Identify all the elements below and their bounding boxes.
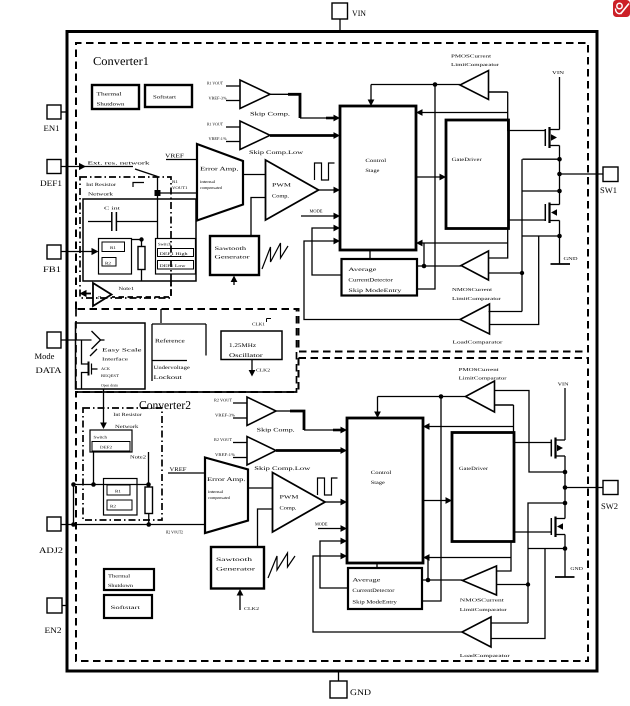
svg-text:Comp.: Comp.: [272, 194, 289, 200]
wire skip comp1 output to control stage: [270, 94, 340, 121]
svg-text:CLK2: CLK2: [256, 368, 270, 373]
wire NMOS comp1 output to average detector: [417, 265, 462, 267]
svg-text:Sawtooth: Sawtooth: [215, 246, 247, 252]
load comparator (conv2): [460, 617, 511, 658]
wire error amp2 out to pwm: [248, 487, 273, 489]
wire skip comp2 output to control stage: [276, 411, 347, 433]
sawtooth waveform symbol (conv2): [268, 553, 295, 578]
wire NMOS1 source to GND: [559, 221, 561, 264]
svg-text:Interface: Interface: [102, 357, 128, 362]
svg-text:Network: Network: [88, 192, 114, 198]
svg-text:R2: R2: [105, 261, 111, 266]
error amplifier (conv2): [205, 458, 248, 534]
wire junction down to average detector (conv1): [417, 85, 435, 290]
note1 feedback dashed path: [80, 281, 172, 297]
buffer triangle Note1: [93, 283, 135, 306]
svg-text:Thermal: Thermal: [108, 574, 131, 580]
junction sense line (conv2): [526, 582, 530, 586]
svg-text:DEF1: DEF1: [40, 178, 62, 188]
svg-text:LimitComparator: LimitComparator: [460, 607, 508, 612]
wire easyscale link up (conv1): [160, 309, 162, 323]
junction PMOS comp2 output: [439, 394, 444, 399]
svg-text:internal: internal: [208, 489, 224, 494]
svg-text:LoadComparator: LoadComparator: [453, 340, 504, 345]
svg-text:Converter2: Converter2: [139, 398, 191, 412]
wire load comp2 output to control2 left edge: [313, 553, 462, 632]
junction SW1: [557, 172, 562, 177]
node CLK2 with arrow: [249, 360, 270, 377]
svg-text:Shutdown: Shutdown: [108, 583, 134, 589]
svg-text:Average: Average: [348, 267, 377, 273]
wire FB1 into divider: [61, 248, 99, 255]
node VIN label (conv2 power stage): [558, 382, 570, 441]
ground symbol (conv2): [555, 566, 584, 577]
svg-text:Int Resistor: Int Resistor: [113, 412, 142, 418]
junction NMOS2 source: [563, 546, 568, 551]
svg-text:SW1: SW1: [600, 185, 617, 195]
svg-text:VREF-1%: VREF-1%: [209, 136, 228, 141]
wire skip comp low1 output to control stage: [270, 132, 340, 139]
wire load comp1 output to control left edge: [304, 238, 460, 320]
node R1 VOUT1 feedback into error amp1: [159, 179, 197, 193]
pin VIN: [332, 3, 366, 32]
svg-text:CLK2: CLK2: [244, 606, 259, 611]
wire PMOS comp1 lower input: [489, 91, 508, 93]
svg-text:R1 VOUT: R1 VOUT: [207, 122, 223, 127]
svg-text:R1: R1: [115, 489, 121, 494]
svg-text:LoadComparator: LoadComparator: [460, 653, 511, 658]
svg-text:LimitComparator: LimitComparator: [459, 376, 508, 381]
svg-text:1.25MHz: 1.25MHz: [229, 343, 257, 349]
wire ADJ2 rail junction drop: [73, 485, 75, 525]
Converter1 dashed boundary: [76, 43, 588, 352]
svg-text:VREF-1%: VREF-1%: [215, 452, 236, 457]
wire resistor branch up (conv2): [148, 452, 150, 485]
wire pwm1 out to control: [319, 187, 341, 194]
NMOS current limit comparator (conv2): [460, 566, 508, 612]
wire NMOS2 drain sense: [528, 503, 565, 623]
svg-text:Control: Control: [371, 470, 392, 476]
svg-text:Skip Comp.Low: Skip Comp.Low: [249, 150, 303, 156]
wire average2 out to control2 left edge: [320, 538, 348, 588]
svg-text:internal: internal: [200, 179, 216, 184]
svg-text:PMOSCurrent: PMOSCurrent: [451, 54, 492, 59]
junction sense line: [520, 271, 524, 275]
svg-text:VIN: VIN: [558, 382, 570, 387]
svg-text:PWM: PWM: [280, 495, 300, 501]
PWM comparator (conv1): [266, 160, 319, 220]
svg-text:VREF-3%: VREF-3%: [215, 413, 236, 418]
wire PMOS comp2 output to control top: [374, 397, 465, 419]
junction SW2: [563, 485, 568, 490]
wire SW1 node vertical: [559, 146, 561, 205]
skip comparator (conv1): [207, 80, 290, 118]
svg-text:Comp.: Comp.: [280, 506, 297, 512]
resistor divider box (conv1): [99, 239, 132, 275]
wire error amp1 out to pwm: [243, 174, 266, 176]
watermark logo (red): [613, 0, 630, 17]
wire load comp1 lower input sense: [490, 236, 539, 325]
svg-text:Error Amp.: Error Amp.: [200, 167, 239, 173]
svg-text:VREF: VREF: [165, 154, 185, 160]
junction resistor top: [146, 482, 151, 487]
control stage (conv1): [340, 106, 416, 250]
svg-text:LimitComparator: LimitComparator: [452, 296, 502, 301]
undervoltage lockout block: [152, 361, 191, 382]
wire control2 bottom to average2: [376, 563, 378, 568]
wire into control2 right edge top: [423, 423, 514, 430]
svg-text:DATA: DATA: [36, 365, 63, 375]
wire PMOS1 drain sense: [523, 158, 560, 160]
svg-text:SW2: SW2: [601, 501, 618, 511]
svg-text:R2: R2: [110, 504, 116, 509]
internal resistor network dash-dot box (conv2): [83, 408, 162, 520]
svg-text:R2 VOUT: R2 VOUT: [214, 437, 232, 442]
ground symbol (conv1): [551, 256, 579, 264]
pin EN2: [45, 598, 69, 635]
wire PMOS2 gate: [514, 442, 551, 444]
switch blade DEF1 select: [133, 169, 158, 239]
average current detector / skip mode entry (conv1): [342, 259, 418, 296]
svg-text:NMOSCurrent: NMOSCurrent: [452, 287, 493, 292]
svg-text:Skip ModeEntry: Skip ModeEntry: [352, 600, 397, 606]
svg-text:CurrentDetector: CurrentDetector: [352, 588, 394, 594]
wire skip comp low2 output: [276, 447, 347, 454]
svg-text:Switch: Switch: [94, 435, 108, 440]
svg-text:Converter1: Converter1: [93, 54, 149, 68]
EasyScale interface block: [76, 323, 146, 389]
svg-text:Thermal: Thermal: [97, 92, 123, 98]
svg-text:Softstart: Softstart: [111, 605, 142, 611]
wire sawtooth2 to pwm input: [258, 509, 273, 547]
NMOS current limit comparator (conv1): [452, 251, 502, 301]
svg-text:ADJ2: ADJ2: [39, 545, 63, 555]
PWM comparator (conv2): [273, 473, 326, 533]
junction NMOS1 drain: [557, 189, 562, 194]
svg-text:NMOSCurrent: NMOSCurrent: [460, 598, 505, 603]
svg-text:Skip Comp.: Skip Comp.: [257, 428, 295, 434]
thermal shutdown block (conv2): [104, 569, 154, 590]
svg-text:DEF1 High: DEF1 High: [160, 251, 188, 256]
skip comparator low (conv2): [214, 437, 310, 473]
svg-text:FB1: FB1: [43, 264, 61, 274]
wire load comp2 lower input sense: [491, 549, 545, 639]
svg-text:Error Amp.: Error Amp.: [207, 477, 246, 483]
node MODE (conv1): [301, 209, 340, 220]
wire junction up to control2 feedback line: [427, 558, 429, 581]
wire NMOS1 gate: [509, 219, 546, 221]
pin Mode/DATA: [35, 332, 63, 375]
wire NMOS comp2 output to average detector: [422, 579, 463, 581]
svg-text:VOUT1: VOUT1: [172, 185, 188, 190]
wire junction down to average detector (conv2): [422, 397, 441, 602]
transistor PMOS high-side (conv1): [545, 127, 559, 148]
wire PMOS comp2 upper input sense: [495, 391, 566, 473]
svg-text:LimitComparator: LimitComparator: [451, 62, 500, 67]
chip outer boundary: [67, 32, 597, 672]
svg-text:GND: GND: [564, 256, 579, 261]
wire control2 to gatedriver2: [423, 497, 452, 504]
wire Mode/DATA input: [61, 339, 92, 341]
pin ADJ2: [39, 517, 63, 555]
svg-text:Control: Control: [365, 158, 387, 164]
wire SW2 to pin: [565, 487, 603, 489]
svg-text:R1: R1: [110, 245, 116, 250]
transistor NMOS low-side (conv2): [551, 517, 565, 538]
svg-text:Softstart: Softstart: [153, 95, 177, 101]
wire VIN rail to PMOS comparator and control top (conv1): [368, 85, 460, 107]
svg-text:Average: Average: [352, 578, 381, 584]
internal resistor network dash-dot box (conv1): [80, 177, 171, 298]
svg-text:Skip Comp.Low: Skip Comp.Low: [254, 466, 310, 472]
svg-text:Ext. res. network: Ext. res. network: [88, 161, 151, 167]
pin DEF1: [40, 160, 62, 189]
thermal shutdown block (conv1): [92, 85, 139, 109]
reference block: [152, 324, 206, 381]
wire NMOS1 source sense: [522, 235, 560, 237]
wire NMOS2 source sense: [528, 548, 565, 550]
junction NMOS2 drain: [563, 501, 568, 506]
square wave symbol (conv1): [315, 163, 335, 180]
svg-text:Stage: Stage: [365, 168, 380, 174]
svg-text:Sawtooth: Sawtooth: [216, 557, 253, 563]
wire easyscale to switch (conv2): [100, 389, 107, 429]
skip comparator (conv2): [214, 397, 295, 434]
svg-text:Int Resistor: Int Resistor: [86, 182, 117, 188]
oscillator 1.25MHz: [221, 331, 282, 360]
wire load comp2 upper input: [491, 622, 528, 624]
switch table box (conv1): [156, 239, 196, 275]
capacitor C int (conv1): [88, 206, 158, 232]
pin GND (bottom): [330, 671, 371, 698]
svg-text:VREF-3%: VREF-3%: [209, 96, 228, 101]
svg-text:VIN: VIN: [352, 8, 366, 18]
node CLK1: [252, 319, 271, 327]
wire switch down to divider (conv2): [93, 452, 95, 485]
svg-text:GateDriver: GateDriver: [452, 157, 482, 163]
svg-text:compensated: compensated: [208, 495, 230, 500]
svg-text:EN1: EN1: [44, 123, 60, 133]
wire junction up to control feedback line: [423, 243, 425, 266]
wire NMOS2 source to GND: [564, 535, 566, 577]
junction divider left: [71, 482, 76, 487]
switch table box (conv2): [90, 430, 132, 452]
control stage (conv2): [347, 418, 423, 563]
wire into NMOS comp1 lower input: [489, 272, 523, 274]
gate driver (conv1): [446, 120, 509, 229]
svg-text:Skip Comp.: Skip Comp.: [250, 112, 290, 118]
wire NMOS2 gate: [514, 531, 551, 533]
node MODE (conv2): [315, 522, 347, 532]
svg-text:Shutdown: Shutdown: [97, 102, 126, 108]
wire gatedriver bottom into control right edge (conv1): [416, 229, 508, 259]
svg-text:compensated: compensated: [200, 185, 222, 190]
junction divider mid: [91, 482, 96, 487]
square wave symbol (conv2): [318, 478, 338, 495]
svg-text:CLK1: CLK1: [252, 322, 265, 327]
wire load comp1 upper input: [489, 311, 523, 313]
pin SW1: [600, 167, 618, 195]
svg-text:VIN: VIN: [552, 70, 565, 75]
junction PMOS1 drain: [557, 157, 562, 162]
sawtooth generator (conv1): [210, 236, 259, 275]
svg-text:Reference: Reference: [155, 339, 185, 345]
clock input arrow into sawtooth1: [231, 276, 238, 283]
softstart block (conv1): [145, 85, 192, 107]
svg-text:R2 VOUT: R2 VOUT: [214, 398, 232, 403]
skip comparator low (conv1): [207, 121, 303, 156]
pin FB1: [43, 245, 61, 274]
PMOS current limit comparator (conv2): [459, 367, 508, 412]
svg-text:CurrentDetector: CurrentDetector: [348, 278, 393, 284]
svg-text:Note1: Note1: [119, 286, 135, 292]
svg-text:DEF1 Low: DEF1 Low: [160, 263, 186, 268]
sawtooth waveform symbol (conv1): [262, 243, 288, 269]
transistor NMOS low-side (conv1): [545, 203, 559, 224]
resistor R internal (conv1): [132, 237, 146, 281]
clock input CLK2 into sawtooth2: [237, 589, 259, 611]
PMOS current limit comparator (conv1): [451, 54, 500, 100]
svg-text:MODE: MODE: [315, 522, 328, 527]
svg-text:MODE: MODE: [310, 209, 323, 214]
svg-text:Lockout: Lockout: [154, 375, 183, 381]
svg-text:Generator: Generator: [215, 255, 250, 261]
node VREF (conv1): [165, 154, 197, 160]
svg-text:GateDriver: GateDriver: [459, 466, 488, 472]
svg-text:Undervoltage: Undervoltage: [154, 365, 191, 371]
wire sawtooth1 to pwm input: [251, 198, 266, 237]
junction NMOS comp2 output: [426, 578, 431, 583]
svg-text:VREF: VREF: [170, 467, 188, 473]
junction NMOS1 source: [557, 234, 562, 239]
svg-text:Generator: Generator: [216, 567, 255, 573]
wire average1 out to control left edge: [312, 225, 342, 275]
svg-text:Open drain: Open drain: [101, 384, 118, 388]
sawtooth generator (conv2): [211, 547, 264, 589]
wire divider top rail (conv2): [74, 484, 149, 486]
softstart block (conv2): [104, 595, 152, 618]
svg-text:EN2: EN2: [45, 625, 62, 635]
transistor ACK open-drain (easyscale): [82, 340, 98, 389]
svg-text:Easy Scale: Easy Scale: [102, 348, 143, 354]
error amplifier (conv1): [197, 144, 243, 221]
junction on VIN sense line (conv1): [433, 82, 438, 87]
svg-text:GND: GND: [350, 687, 371, 697]
pin SW2: [601, 481, 618, 512]
gate driver (conv2): [452, 433, 514, 542]
wire SW1 to pin: [560, 173, 604, 175]
wire NMOS1 drain sense: [522, 190, 560, 192]
svg-text:Note2: Note2: [130, 455, 147, 461]
svg-text:R2 VOUT2: R2 VOUT2: [166, 530, 183, 535]
wire ADJ2 into error amp (conv2): [61, 522, 205, 534]
wire gatedriver2 bottom into control2 right edge: [423, 542, 511, 572]
resistor R internal (conv2): [145, 485, 153, 525]
wire control1 to gatedriver1: [416, 174, 446, 181]
svg-text:Oscillator: Oscillator: [229, 353, 263, 359]
svg-text:Switch: Switch: [158, 242, 171, 247]
wire into control right edge top (conv1): [416, 92, 546, 131]
svg-text:C int: C int: [104, 206, 121, 211]
wire control1 bottom to average1: [369, 250, 371, 259]
wire into NMOS comp2 lower input: [497, 584, 529, 586]
svg-text:REQEST: REQEST: [101, 373, 120, 378]
svg-text:PWM: PWM: [272, 183, 292, 189]
average current detector / skip mode entry (conv2): [348, 568, 422, 609]
svg-text:ACK: ACK: [101, 366, 110, 371]
svg-text:R1: R1: [172, 179, 178, 184]
middle section dashed boundary: [76, 309, 297, 392]
wire pwm2 out: [325, 499, 347, 506]
Converter2 dashed boundary: [76, 358, 588, 661]
junction NMOS comp1 output: [422, 264, 427, 269]
load comparator (conv1): [453, 304, 504, 345]
node VREF (conv2): [168, 467, 205, 473]
svg-text:Skip ModeEntry: Skip ModeEntry: [348, 288, 402, 294]
svg-text:Network: Network: [115, 424, 139, 430]
svg-text:GND: GND: [570, 566, 583, 571]
junction FB node (conv1): [155, 190, 161, 196]
node Ext. res. network (conv1): [61, 161, 151, 171]
resistor network box (conv1): [83, 199, 196, 281]
pin EN1: [44, 105, 69, 133]
node VIN label (conv1 power stage): [552, 70, 565, 130]
svg-text:DEF2: DEF2: [100, 445, 112, 450]
svg-text:Mode: Mode: [35, 351, 55, 361]
junction PMOS2 drain: [563, 470, 568, 475]
wire SW2 node vertical: [564, 456, 566, 519]
svg-text:Stage: Stage: [371, 480, 386, 486]
wire PMOS comp2 lower input: [495, 404, 514, 406]
svg-text:PMOSCurrent: PMOSCurrent: [459, 367, 500, 372]
transistor PMOS high-side (conv2): [551, 438, 565, 459]
svg-text:R1 VOUT: R1 VOUT: [207, 81, 223, 86]
resistor divider box (conv2): [104, 479, 138, 516]
